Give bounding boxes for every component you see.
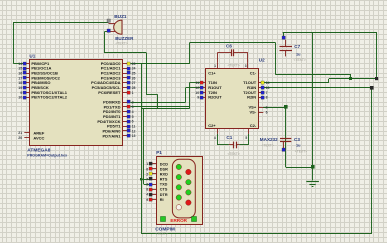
svg-text:C2-: C2- [250, 123, 257, 128]
svg-text:7: 7 [146, 177, 148, 181]
pin C2+ (4) bottom [217, 129, 219, 134]
wire vertical x285 VS+ net [285, 107, 287, 167]
svg-text:5: 5 [132, 115, 134, 119]
pin PD0/RXD (2) [122, 102, 127, 104]
pin T1OUT (14) [259, 82, 264, 84]
wire vertical x376 [376, 32, 378, 79]
svg-text:PC6/RESET: PC6/RESET [98, 90, 121, 95]
wire vertical from buzzer bottom [104, 32, 106, 53]
svg-text:12: 12 [195, 86, 199, 90]
svg-text:P1: P1 [156, 150, 162, 155]
DB9 pin circle [186, 180, 191, 185]
svg-text:13: 13 [132, 134, 136, 138]
svg-text:18: 18 [18, 81, 22, 85]
pin CTS (8) [152, 189, 157, 191]
wire vertical x189 to T1IN [189, 83, 191, 109]
C6 leg right [247, 53, 249, 63]
wire to pin PB0 [13, 63, 23, 65]
svg-text:2: 2 [266, 106, 268, 110]
ground [306, 181, 319, 183]
svg-text:VS-: VS- [250, 110, 257, 115]
svg-text:3: 3 [146, 183, 148, 187]
pin PB4/MISO (18) [24, 82, 29, 84]
svg-text:2: 2 [132, 100, 134, 104]
svg-text:RI: RI [160, 198, 164, 202]
svg-text:10: 10 [195, 91, 199, 95]
DB9 connector graphic [172, 159, 195, 218]
svg-text:19: 19 [18, 86, 22, 90]
svg-text:RXD: RXD [160, 172, 168, 176]
C6 plate left [231, 49, 233, 56]
wire vertical x189 up [189, 42, 191, 63]
wire to C1 right [239, 144, 248, 146]
indicator square right [192, 217, 197, 222]
pin PD7/AIN1 (13) [122, 135, 127, 137]
svg-text:26: 26 [132, 76, 136, 80]
C3 state square [282, 148, 285, 151]
svg-text:23: 23 [132, 62, 136, 66]
pin AREF (21) [24, 132, 29, 134]
pin T2IN (10) [201, 92, 206, 94]
wire buzzer-bottom stub [105, 31, 108, 33]
svg-text:1: 1 [146, 162, 148, 166]
wire jog x350 [350, 74, 352, 79]
svg-text:6: 6 [266, 111, 268, 115]
buzzer pin bottom [109, 31, 116, 33]
svg-text:1: 1 [214, 64, 216, 68]
pin PB7/TOSC2/XTAL2 (10) [24, 97, 29, 99]
svg-text:1u: 1u [296, 52, 301, 56]
svg-text:C2+: C2+ [208, 123, 216, 128]
svg-text:<TEXT>: <TEXT> [228, 63, 240, 67]
pin RI (9) [152, 199, 157, 201]
svg-text:5: 5 [245, 136, 247, 140]
pin PC4/ADC4/SDA (27) [122, 82, 127, 84]
svg-text:8: 8 [266, 96, 268, 100]
junction x312 y167 [311, 165, 315, 169]
svg-text:1: 1 [132, 91, 134, 95]
DB9 pin circle [186, 169, 191, 174]
junction VS+ corner [284, 105, 288, 109]
svg-text:R2OUT: R2OUT [208, 95, 222, 100]
svg-text:ATMEGA8: ATMEGA8 [27, 148, 50, 154]
svg-text:C6: C6 [226, 43, 232, 48]
U1 body [30, 60, 123, 146]
svg-text:<TEXT>: <TEXT> [262, 143, 274, 147]
wire C2- down [248, 134, 250, 145]
svg-text:27: 27 [132, 81, 136, 85]
C1 lead left [229, 144, 234, 146]
svg-text:2: 2 [146, 172, 148, 176]
indicator square left [161, 217, 166, 222]
wire to COMPIM TXD [144, 184, 150, 186]
wire R1IN horizontal [263, 87, 372, 89]
pin PC1/ADC1 (24) [122, 68, 127, 70]
junction RTS branch [140, 178, 142, 180]
pin DSR (6) [152, 168, 157, 170]
wire PD1/TXD horizontal [131, 106, 190, 108]
wire horizontal y32 top right [283, 32, 377, 34]
svg-text:C7: C7 [294, 44, 300, 49]
pin C2- (5) bottom [248, 129, 250, 134]
C7 state square [282, 36, 285, 39]
C6 leg left [217, 53, 219, 63]
DB9 pin circle [176, 195, 181, 200]
svg-text:4: 4 [146, 193, 148, 197]
svg-text:DSR: DSR [160, 167, 168, 171]
pin T2OUT (7) [259, 92, 264, 94]
C6 plate right [233, 49, 235, 56]
pin VS- (6) [259, 112, 264, 114]
svg-text:6: 6 [132, 120, 134, 124]
svg-text:RTS: RTS [160, 178, 168, 182]
C7 lead bottom [285, 50, 287, 56]
pin R2IN (8) [259, 97, 264, 99]
svg-text:PB7/TOSC2/XTAL2: PB7/TOSC2/XTAL2 [31, 95, 67, 100]
svg-text:16: 16 [18, 71, 22, 75]
wire vertical x146 [146, 53, 148, 95]
svg-text:<TEXT>: <TEXT> [156, 232, 168, 236]
svg-text:ERROR: ERROR [170, 218, 187, 223]
svg-text:1u: 1u [296, 143, 301, 147]
wire vertical x185 to R1OUT [185, 88, 187, 102]
pin AVCC (20) [24, 137, 29, 139]
state square gray [107, 19, 110, 22]
svg-text:BUZ1: BUZ1 [114, 14, 127, 19]
svg-text:C1: C1 [226, 135, 232, 140]
svg-text:C1-: C1- [250, 71, 257, 76]
C6 lead right [234, 52, 248, 54]
DB9 pin circle [176, 174, 181, 179]
wire stub to C7 [283, 32, 285, 36]
svg-text:3: 3 [245, 64, 247, 68]
pin RXD (2) [152, 173, 157, 175]
svg-text:PROGRAM=Output.hex: PROGRAM=Output.hex [27, 154, 67, 158]
pin PB2/SS/OC1B (16) [24, 73, 29, 75]
C1 plate right [236, 142, 238, 149]
wire horizontal bottom y233 [141, 233, 371, 235]
pin DTR (4) [152, 194, 157, 196]
svg-text:6: 6 [146, 167, 148, 171]
wire C2+ down [217, 134, 219, 145]
svg-text:9: 9 [20, 91, 22, 95]
svg-text:3: 3 [132, 105, 134, 109]
wire horizontal y42 over C6 [190, 42, 275, 44]
svg-text:<TEXT>: <TEXT> [294, 58, 306, 62]
svg-text:7: 7 [266, 91, 268, 95]
DB9 pin circle [176, 205, 181, 210]
pin PC0/ADC0 (23) [122, 63, 127, 65]
pin PC5/ADC5/SCL (28) [122, 87, 127, 89]
svg-text:17: 17 [18, 76, 22, 80]
wire vertical x141 [141, 63, 143, 234]
C1 plate left [233, 142, 235, 149]
wire to R1OUT pin [186, 87, 201, 89]
pin PC3/ADC3 (26) [122, 77, 127, 79]
pin R1IN (13) [259, 87, 264, 89]
svg-text:8: 8 [146, 188, 148, 192]
wire vertical to PB0 [13, 22, 15, 63]
svg-text:BUZZER: BUZZER [115, 36, 134, 41]
svg-text:<TEXT>: <TEXT> [228, 152, 240, 156]
pin PD1/TXD (3) [122, 106, 127, 108]
pin VS+ (2) [259, 107, 264, 109]
pin T1IN (11) [201, 82, 206, 84]
svg-text:13: 13 [266, 86, 270, 90]
pin PD6/AIN0 (12) [122, 130, 127, 132]
wire horizontal y167 [286, 167, 313, 169]
wire vertical x143 [143, 109, 145, 184]
svg-text:28: 28 [132, 86, 136, 90]
svg-text:MAX232: MAX232 [260, 137, 278, 142]
P1 body [157, 157, 203, 225]
svg-text:C3: C3 [294, 137, 300, 142]
svg-text:11: 11 [195, 81, 199, 85]
pin R1OUT (12) [201, 87, 206, 89]
wire to COMPIM RTS [141, 179, 149, 181]
svg-text:4: 4 [214, 136, 216, 140]
C6 lead left [217, 52, 231, 54]
wire vertical x312 ground net [312, 32, 314, 180]
svg-text:21: 21 [18, 131, 22, 135]
svg-text:U2: U2 [259, 58, 265, 63]
wire horizontal y108 [141, 108, 189, 110]
DB9 pin circle [186, 200, 191, 205]
C7 plate top [280, 46, 293, 48]
wire vertical x371 [371, 88, 373, 234]
svg-text:<TEXT>: <TEXT> [116, 41, 128, 45]
DB9 pin circle [176, 164, 181, 169]
pin C1+ (1) top [217, 63, 219, 69]
pin PD2/INT0 (4) [122, 111, 127, 113]
C3 plate bottom [280, 141, 291, 143]
U2 body [206, 69, 259, 129]
svg-text:CTS: CTS [160, 188, 168, 192]
wire jog x328 [328, 79, 330, 83]
svg-text:TXD: TXD [160, 183, 168, 187]
C7 lead top [285, 40, 287, 47]
pin C1- (3) top [247, 63, 249, 69]
svg-text:C1+: C1+ [208, 71, 216, 76]
wire VS+ horizontal [263, 107, 286, 109]
junction R1IN end [370, 86, 374, 90]
svg-text:9: 9 [146, 198, 148, 202]
pin R2OUT (9) [201, 97, 206, 99]
svg-text:24: 24 [132, 67, 136, 71]
wire horizontal y94 [146, 94, 158, 96]
svg-text:12: 12 [132, 129, 136, 133]
wire horizontal y78 [329, 78, 377, 80]
wire end square x376 [375, 77, 378, 80]
DB9 pin circle [186, 190, 191, 195]
pin PD4/T0/XCK (6) [122, 121, 127, 123]
pin PB3/MOSI/OC2 (17) [24, 77, 29, 79]
svg-text:20: 20 [18, 136, 22, 140]
pin PD5/T1 (11) [122, 126, 127, 128]
svg-text:AVCC: AVCC [33, 135, 44, 140]
svg-text:4: 4 [132, 110, 134, 114]
wire PC0/ADC0 horizontal [131, 63, 190, 65]
svg-text:14: 14 [266, 81, 270, 85]
svg-text:10: 10 [18, 96, 22, 100]
buzzer BUZ1 [114, 20, 122, 34]
wire buzzer-top net horizontal [13, 22, 108, 24]
wire horizontal y74 [275, 74, 351, 76]
svg-text:11: 11 [132, 125, 136, 129]
wire to C1 left [217, 144, 229, 146]
svg-text:<TEXT>: <TEXT> [295, 149, 307, 153]
svg-text:15: 15 [18, 67, 22, 71]
C1 lead right [236, 144, 239, 146]
svg-text:U1: U1 [29, 54, 35, 59]
wire vertical x157 [157, 95, 159, 109]
state square blue [107, 29, 110, 32]
pin PB1/OC1A (15) [24, 68, 29, 70]
pin PC6/RESET (1) [122, 92, 127, 94]
wire T1OUT horizontal [263, 82, 329, 84]
junction y78 [349, 77, 352, 80]
svg-text:PD7/AIN1: PD7/AIN1 [102, 133, 121, 138]
wire to T1IN pin [189, 82, 200, 84]
buzzer pin top [109, 23, 116, 25]
svg-text:DCD: DCD [160, 162, 168, 166]
svg-text:14: 14 [18, 62, 22, 66]
pin RTS (7) [152, 179, 157, 181]
pin DCD (1) [152, 163, 157, 165]
C3 lead bottom [283, 141, 285, 148]
C3 plate top [280, 138, 291, 140]
pin TXD (3) [152, 184, 157, 186]
svg-text:R2IN: R2IN [247, 95, 256, 100]
svg-text:9: 9 [197, 96, 199, 100]
svg-text:DTR: DTR [160, 193, 168, 197]
DB9 pin circle [176, 185, 181, 190]
wire PD0/RXD horizontal [131, 102, 186, 104]
pin PB0/ICP1 (14) [24, 63, 29, 65]
wire vertical x275 [275, 42, 277, 74]
pin PC2/ADC2 (25) [122, 73, 127, 75]
svg-text:25: 25 [132, 71, 136, 75]
wire horizontal y52 [104, 52, 146, 54]
pin PD3/INT1 (5) [122, 116, 127, 118]
C7 plate bottom [280, 50, 293, 52]
pin PB6/TOSC1/XTAL1 (9) [24, 92, 29, 94]
pin PB5/SCK (19) [24, 87, 29, 89]
